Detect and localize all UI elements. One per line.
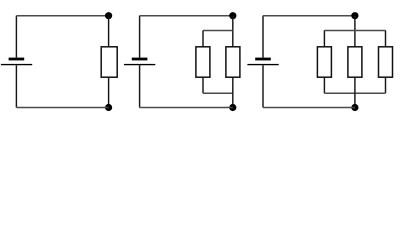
resistor R2a (196, 47, 210, 77)
battery B3 (247, 58, 278, 66)
wire circuit3 top bus (324, 30, 385, 32)
wire B3 top lead (262, 16, 264, 58)
wire B1 top lead (15, 16, 17, 58)
wire circuit2 top (140, 15, 233, 17)
wire circuit3 top (263, 15, 355, 17)
resistor R3b (348, 47, 362, 77)
resistor R3a (317, 47, 331, 77)
node circuit3 bottom junction (351, 104, 358, 111)
wire B1 bottom lead (15, 65, 17, 107)
wire circuit3 bottom bus (324, 92, 385, 94)
wire R1 top lead (108, 16, 110, 47)
wire circuit1 bottom (16, 107, 108, 109)
wire circuit2 top drop (232, 16, 234, 47)
wire circuit2 top bus (203, 30, 233, 32)
wire circuit2 bottom (140, 107, 233, 109)
node circuit3 top junction (351, 12, 358, 19)
wire R2a top lead (202, 31, 204, 47)
wire R2a bottom lead (202, 77, 204, 93)
wire R3c bottom lead (385, 77, 387, 93)
wire circuit1 top (16, 15, 108, 17)
wire B2 bottom lead (139, 65, 141, 107)
node circuit1 bottom junction (105, 104, 112, 111)
wire B3 bottom lead (262, 65, 264, 107)
battery B2 (124, 58, 155, 66)
wire circuit3 bottom drop (354, 77, 356, 107)
wire circuit2 bottom drop (232, 77, 234, 107)
node circuit2 top junction (229, 12, 236, 19)
resistor R3c (379, 47, 393, 77)
wire circuit3 bottom (263, 107, 355, 109)
node circuit2 bottom junction (229, 104, 236, 111)
wire R1 bottom lead (108, 77, 110, 107)
node circuit1 top junction (105, 12, 112, 19)
battery B1 (1, 58, 32, 66)
wire R3c top lead (385, 31, 387, 47)
wire circuit2 bottom bus (203, 92, 233, 94)
wire R3a top lead (323, 31, 325, 47)
wire R3a bottom lead (323, 77, 325, 93)
resistor R1 (101, 47, 117, 77)
resistor R2b (226, 47, 240, 77)
wire B2 top lead (139, 16, 141, 58)
wire circuit3 top drop (354, 16, 356, 47)
